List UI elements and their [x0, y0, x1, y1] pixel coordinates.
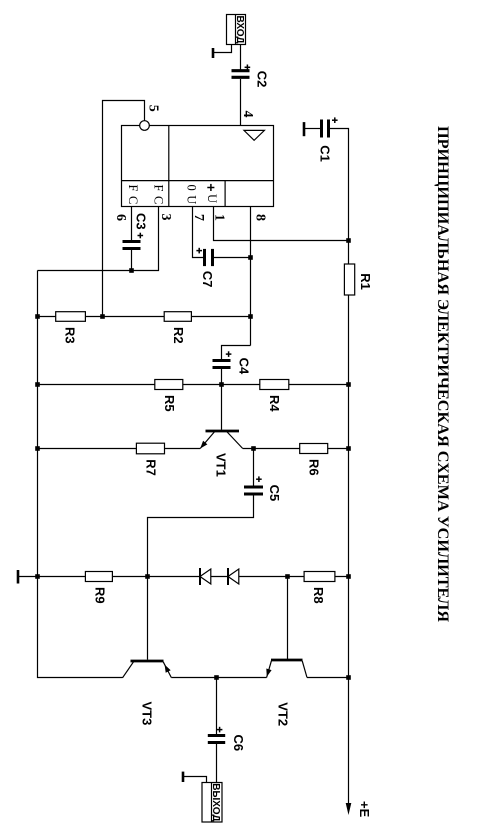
node chain feedback	[100, 314, 105, 319]
ground bar input	[212, 48, 215, 58]
svg-text:R7: R7	[143, 459, 158, 476]
wire VT2 base	[287, 577, 289, 660]
svg-text:1: 1	[212, 214, 227, 221]
plus C5	[258, 476, 260, 482]
wire R7 column	[38, 448, 201, 450]
resistor R9	[85, 572, 112, 582]
wire +E top rail	[329, 129, 349, 805]
wire between diodes	[211, 576, 228, 578]
node R8 rail	[346, 574, 351, 579]
svg-text:C5: C5	[267, 485, 282, 502]
svg-text:VT3: VT3	[140, 702, 155, 726]
svg-text:+E: +E	[357, 801, 372, 818]
svg-text:C3: C3	[134, 213, 149, 230]
plus C6	[219, 727, 221, 733]
wire C3 to node	[131, 250, 133, 271]
wire VT2 collector to rail	[307, 677, 349, 679]
ground bar output	[182, 772, 185, 782]
svg-text:8: 8	[253, 214, 268, 221]
node R9 rail	[35, 574, 40, 579]
svg-text:VT1: VT1	[214, 453, 229, 477]
svg-text:R4: R4	[267, 395, 282, 412]
svg-text:C4: C4	[237, 358, 252, 375]
svg-text:U: U	[205, 194, 219, 208]
wire C1 ground stub	[305, 128, 320, 130]
wire C6 to output box	[216, 743, 218, 783]
svg-text:C7: C7	[200, 271, 215, 288]
resistor R2	[164, 312, 191, 322]
svg-text:4: 4	[240, 111, 255, 118]
resistor R1	[344, 264, 354, 295]
wire R8 column	[239, 576, 349, 578]
svg-text:R3: R3	[63, 327, 78, 344]
svg-text:FC: FC	[126, 185, 140, 209]
svg-text:6: 6	[113, 214, 128, 221]
capacitor C5	[244, 486, 263, 489]
node chain pin8	[248, 314, 253, 319]
svg-text:R8: R8	[311, 587, 326, 604]
resistor R3	[56, 312, 86, 322]
wire C5 left	[253, 449, 255, 488]
pin 5 circle	[140, 121, 150, 131]
svg-text:R5: R5	[162, 395, 177, 412]
wire C6 left	[216, 678, 218, 736]
wire pin8 jog to C4	[222, 346, 251, 360]
ground bar C1	[303, 122, 306, 136]
wire output ground stub	[184, 777, 207, 783]
capacitor C7	[211, 249, 214, 266]
node C3 junction	[129, 268, 134, 273]
node output C6	[214, 675, 219, 680]
wire C4 to VT1 base	[221, 369, 223, 430]
cell label +U	[210, 184, 212, 191]
capacitor C6	[208, 734, 225, 737]
capacitor C3	[123, 240, 141, 243]
resistor R5	[155, 380, 183, 390]
diode VD1	[200, 569, 211, 584]
resistor R6	[300, 444, 328, 454]
resistor R8	[304, 572, 335, 582]
svg-text:R9: R9	[92, 587, 107, 604]
wire pin3	[38, 207, 159, 271]
svg-text:ПРИНЦИПИАЛЬНАЯ ЭЛЕКТРИЧЕСКАЯ С: ПРИНЦИПИАЛЬНАЯ ЭЛЕКТРИЧЕСКАЯ СХЕМА УСИЛИ…	[434, 126, 451, 622]
node diode chain VT3 base	[145, 574, 150, 579]
wire pin8	[250, 207, 252, 346]
wire output node	[171, 677, 266, 679]
diode VD2	[228, 569, 239, 584]
capacitor C4	[213, 359, 231, 362]
wire C5 to VT3 base	[148, 494, 254, 660]
svg-text:R6: R6	[307, 459, 322, 476]
plus C2	[246, 65, 248, 71]
transistor VT3	[131, 660, 164, 663]
plus C4	[228, 351, 230, 357]
node chain rail	[35, 314, 40, 319]
wire C2 to pin4	[240, 79, 242, 126]
wire pin1	[214, 207, 349, 241]
svg-text:3: 3	[158, 214, 173, 221]
node R7 rail	[35, 446, 40, 451]
svg-text:C1: C1	[318, 145, 333, 162]
wire pin7	[193, 207, 204, 258]
svg-text:C2: C2	[255, 71, 270, 88]
transistor VT1	[206, 430, 240, 433]
svg-text:R1: R1	[358, 273, 373, 290]
wire bottom rail	[38, 271, 123, 678]
node C4 row	[219, 382, 224, 387]
amplifier triangle	[244, 130, 264, 140]
connector X1 input	[227, 15, 246, 45]
node VT2 collector rail	[346, 675, 351, 680]
node R5 rail	[35, 382, 40, 387]
wire R4 R5 column	[38, 384, 349, 386]
transistor VT2	[271, 659, 303, 662]
node R4 rail	[346, 382, 351, 387]
resistor R4	[260, 380, 289, 390]
svg-text:R2: R2	[171, 327, 186, 344]
svg-text:ВЫХОД: ВЫХОД	[210, 783, 221, 821]
plus C7	[198, 248, 200, 254]
node C7 pin8	[248, 255, 253, 260]
svg-text:ВХОД: ВХОД	[234, 15, 245, 43]
svg-text:5: 5	[146, 105, 161, 112]
svg-text:C6: C6	[231, 735, 246, 752]
capacitor C1	[327, 120, 330, 138]
wire input shield stub	[214, 44, 232, 52]
wire R6 column	[243, 448, 349, 450]
resistor R7	[136, 443, 164, 454]
wire diode to ground bar	[19, 576, 200, 578]
op-amp U1 body	[122, 126, 274, 207]
arrow +E	[346, 803, 352, 815]
svg-text:0U: 0U	[185, 185, 199, 209]
wire C7 to pin8	[213, 257, 251, 259]
wire input signal	[240, 44, 242, 69]
node VT1 collector C5	[251, 446, 256, 451]
node rail pin1	[346, 238, 351, 243]
wire pin5 feedback	[103, 101, 145, 317]
node R6 rail	[346, 446, 351, 451]
plus C1	[334, 117, 336, 123]
ground bar bottom	[17, 570, 20, 584]
svg-text:FC: FC	[152, 185, 166, 209]
plus C3	[139, 233, 141, 239]
node VT2 base branch	[285, 574, 290, 579]
connector X2 output	[202, 783, 222, 823]
svg-text:7: 7	[191, 214, 206, 221]
wire R2 R3 chain	[38, 316, 251, 318]
wire pin6	[131, 207, 133, 241]
svg-text:VT2: VT2	[275, 702, 290, 726]
capacitor C2	[232, 69, 250, 72]
